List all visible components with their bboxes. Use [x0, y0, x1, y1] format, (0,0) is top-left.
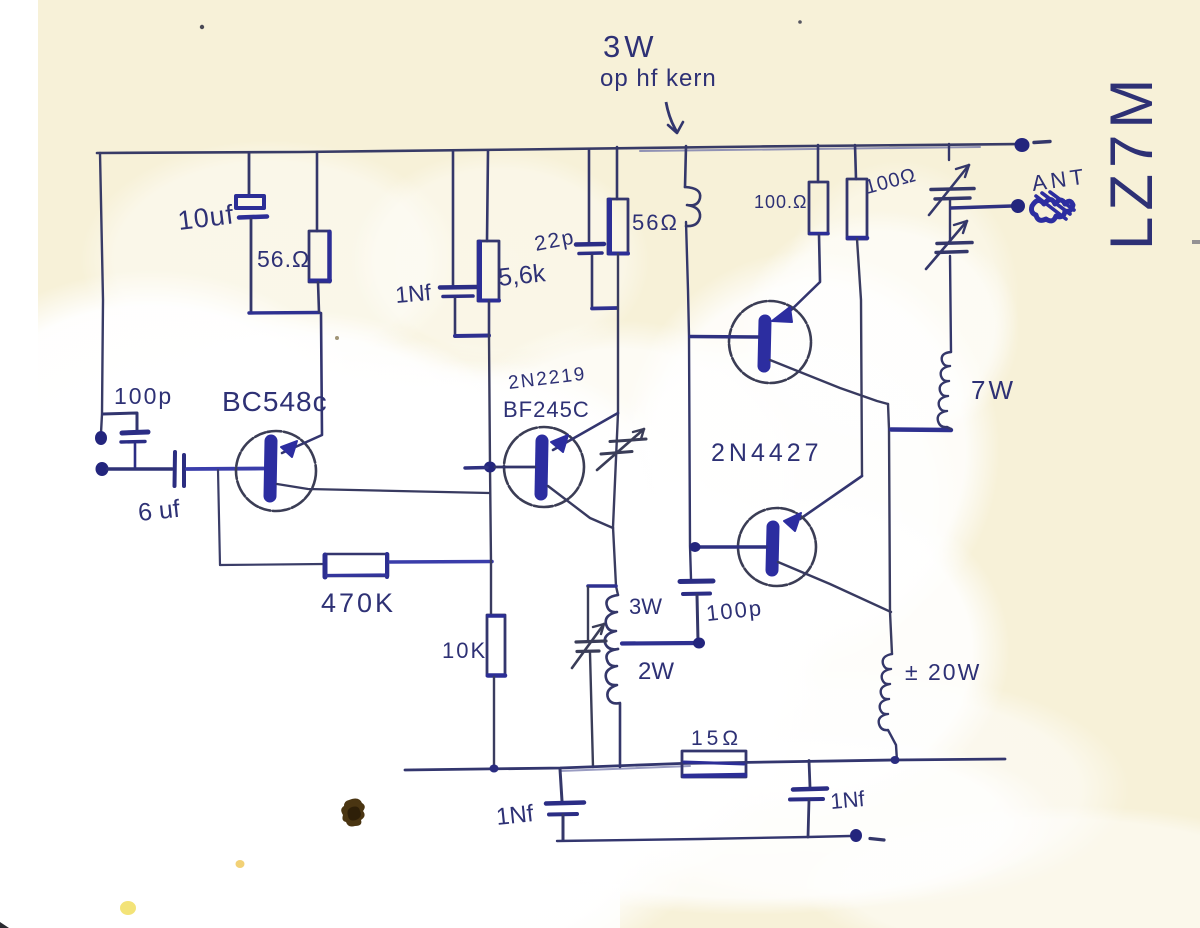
svg-text:3W: 3W — [629, 594, 662, 619]
wire return terminal dash — [870, 839, 884, 841]
node rail junction 20W coil — [891, 756, 900, 764]
svg-text:5,6k: 5,6k — [497, 259, 547, 292]
capacitor 1Nf (stage 2 top) — [440, 151, 476, 335]
node Q4 base junction — [690, 542, 701, 552]
ink blot brown — [341, 799, 365, 827]
transistor Q2 base lead — [495, 466, 535, 469]
svg-text:6 uf: 6 uf — [137, 495, 181, 527]
transistor Q4 emitter lead — [778, 562, 891, 612]
svg-text:3W: 3W — [603, 29, 658, 64]
wire supply terminal dash — [1034, 142, 1050, 143]
wire input line to 6uf — [108, 467, 172, 471]
faint speck top-left — [200, 25, 204, 29]
svg-text:BF245C: BF245C — [503, 397, 590, 422]
svg-text:1Nf: 1Nf — [394, 279, 433, 308]
transistor Q1 collector lead with arrow — [282, 313, 322, 453]
wire Q4 collector diagonal — [800, 476, 862, 519]
wire left input drop — [100, 153, 103, 433]
transistor Q4 base bar — [772, 527, 773, 570]
wire 100p branch — [103, 413, 137, 431]
faint speck top-mid — [798, 20, 802, 24]
resistor 15ohm (in rail) — [682, 751, 746, 777]
small orange speck — [236, 860, 245, 868]
transistor Q1 base bar — [270, 441, 271, 496]
resistor 100ohm (second) — [847, 145, 867, 476]
transistor Q3 base lead — [690, 335, 758, 339]
wire lower return line — [557, 836, 850, 841]
capacitor 1Nf (left decoupling) — [546, 769, 584, 840]
wire 6uf to Q1 base — [187, 467, 264, 471]
wire bottom U 1Nf to 5,6k — [455, 334, 489, 339]
capacitor 6uf (series) — [175, 452, 185, 486]
variable capacitor trimmer (floating near Q2) — [597, 429, 646, 470]
resistor 470K — [325, 554, 388, 577]
svg-text:2W: 2W — [638, 658, 674, 685]
inductor 2W (lower tank half) — [606, 649, 620, 767]
node rail junction 10K — [490, 765, 499, 773]
node return terminal — [850, 829, 862, 842]
variable capacitor trimmer 2 (antenna) — [926, 221, 972, 269]
faint speck right edge — [1192, 240, 1200, 244]
inductor 7W — [938, 256, 951, 429]
svg-text:1Nf: 1Nf — [495, 800, 535, 831]
wire 470K to node — [390, 560, 492, 564]
scribble (crossed-out) near ANT — [1032, 192, 1075, 221]
wire top supply rail — [97, 144, 1022, 153]
svg-text:56.Ω: 56.Ω — [257, 246, 310, 272]
variable capacitor trimmer 1 (antenna) — [929, 144, 974, 241]
wire emitter bus vertical — [888, 404, 892, 654]
capacitor 22p — [576, 150, 604, 308]
wire bottom ground rail — [405, 759, 1005, 770]
inductor 3W (upper tank half) — [605, 595, 618, 649]
transistor Q2 base bar — [541, 441, 542, 494]
wire bias to 470K — [220, 564, 324, 565]
wire stub left of Q2 base node — [465, 466, 487, 470]
transistor Q3 emitter lead — [770, 360, 888, 404]
svg-text:10K: 10K — [442, 638, 487, 663]
wire 22p bottom to collector column — [592, 306, 617, 310]
node antenna terminal — [1011, 199, 1025, 213]
capacitor 10uf — [236, 153, 267, 312]
transistor Q2 collector lead with arrow — [553, 413, 618, 450]
yellow spot bottom-left — [120, 901, 136, 915]
capacitor 1Nf (right decoupling) — [790, 761, 827, 838]
transistor Q1 BC548c circle — [236, 431, 316, 511]
wire jog to trimmer branch — [588, 584, 616, 588]
transistor Q3 base bar — [764, 321, 765, 366]
wire bias branch down — [218, 470, 220, 565]
wire bottom rail retrace — [560, 766, 690, 771]
resistor 56ohm (driver stage) — [608, 147, 628, 254]
svg-text:7W: 7W — [971, 375, 1016, 405]
svg-text:15Ω: 15Ω — [691, 727, 742, 750]
svg-text:100.Ω: 100.Ω — [754, 192, 808, 212]
resistor 56ohm (first stage) — [309, 152, 330, 312]
node input terminal lower — [96, 462, 109, 476]
wire 100p to coil tap — [622, 641, 699, 646]
resistor 100ohm (first) — [809, 145, 828, 281]
svg-text:± 20W: ± 20W — [905, 659, 981, 685]
capacitor 100p (input) — [121, 432, 148, 468]
resistor 5,6k — [478, 151, 499, 335]
wire collector column down to 3W coil — [613, 254, 618, 595]
inductor 3W op hf kern (choke on rail) — [685, 146, 700, 579]
transistor Q4 2N4427 (final) circle — [738, 508, 816, 586]
corner mark bottom-left — [0, 922, 9, 928]
inductor ±20W — [879, 654, 897, 761]
transistor Q4 base lead — [695, 545, 766, 548]
variable capacitor (tank trimmer) — [572, 587, 606, 767]
svg-text:1Nf: 1Nf — [829, 786, 866, 814]
transistor Q1 emitter lead — [277, 484, 489, 493]
svg-text:470K: 470K — [321, 588, 396, 618]
arrow to rail choke — [666, 102, 677, 132]
wire 10uf to 56ohm bottom — [249, 311, 319, 315]
transistor Q3 collector lead with arrow — [786, 282, 820, 315]
svg-text:BC548c: BC548c — [222, 386, 328, 417]
node supply terminal — [1015, 138, 1030, 152]
svg-text:100p: 100p — [114, 383, 173, 409]
resistor 10K — [487, 615, 505, 768]
svg-text:op hf kern: op hf kern — [600, 65, 717, 92]
transistor Q2 emitter lead — [548, 486, 613, 528]
wire antenna feed — [951, 206, 1012, 208]
capacitor 100p (driver tap) — [680, 581, 713, 641]
node input terminal upper — [95, 431, 107, 445]
transistor Q2 2N2219/BF245C circle — [504, 427, 584, 507]
wire top rail retrace — [640, 147, 980, 151]
wire 7W coil bottom link — [891, 427, 951, 432]
svg-text:2N4427: 2N4427 — [711, 439, 823, 467]
faint speck mid — [335, 336, 339, 340]
wire node column down to 10K and rail — [489, 336, 491, 614]
transistor Q3 2N4427 (driver) circle — [729, 301, 811, 383]
transistor Q4 collector arrow — [784, 513, 801, 531]
svg-text:56Ω: 56Ω — [632, 210, 679, 235]
node Q2 base junction — [484, 462, 496, 473]
svg-text:LZ7M: LZ7M — [1098, 73, 1165, 250]
